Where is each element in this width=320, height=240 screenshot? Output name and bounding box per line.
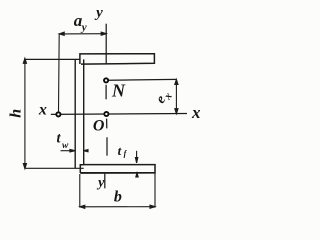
channel web left edge <box>74 59 76 168</box>
channel web right edge <box>83 59 85 164</box>
svg-text:N: N <box>111 80 126 100</box>
svg-text:y: y <box>94 5 103 21</box>
point O circle (centroid) <box>104 112 108 116</box>
bottom flange thick bottom edge <box>80 172 155 174</box>
y axis dash above bottom flange <box>106 137 108 155</box>
web bottom edge + h extension line bottom <box>25 167 84 169</box>
horizontal line from N to e_x dimension <box>109 78 177 81</box>
y axis dash below O <box>106 119 108 129</box>
label e_x (rotated) <box>153 87 175 108</box>
svg-text:t: t <box>118 143 122 158</box>
dimension a_y line <box>59 33 106 35</box>
t_w leader line left of web with arrowhead <box>61 150 76 152</box>
svg-text:O: O <box>93 118 105 135</box>
bottom flange outline <box>80 165 155 174</box>
b left arrowhead <box>80 205 85 208</box>
t dimension tick above flange with arrowhead <box>136 151 138 163</box>
shear centre circle on x axis (left) <box>56 112 60 116</box>
svg-text:x: x <box>38 102 47 119</box>
t dimension tick below flange with arrowhead <box>136 173 138 178</box>
svg-text:b: b <box>114 188 122 205</box>
h bottom arrowhead <box>23 164 26 169</box>
x axis <box>51 113 187 116</box>
b right extension line <box>154 173 156 207</box>
svg-text:y: y <box>96 176 105 191</box>
a_y left arrowhead <box>59 32 64 35</box>
y axis segment below N <box>105 85 107 100</box>
y axis top segment <box>105 24 107 65</box>
svg-text:w: w <box>62 141 69 151</box>
svg-text:x: x <box>191 103 201 122</box>
a_y extension line down to shear centre <box>58 34 61 112</box>
point N circle <box>104 78 108 82</box>
t_w arrowhead right of web <box>84 150 88 152</box>
svg-text:h: h <box>8 109 25 118</box>
b left extension line <box>79 174 81 208</box>
dimension e_x line <box>175 79 177 113</box>
svg-text:y: y <box>80 21 87 33</box>
dimension b line <box>80 206 155 208</box>
e_x top arrowhead <box>175 79 178 84</box>
dimension h line <box>24 58 26 168</box>
a_y right arrowhead <box>101 32 106 35</box>
h top arrowhead <box>23 58 26 63</box>
b right arrowhead <box>150 205 155 208</box>
top flange outline <box>80 54 154 64</box>
y axis bottom segment below flange <box>104 174 106 189</box>
e_x bottom arrowhead <box>175 109 178 114</box>
web top edge + h extension line top <box>25 58 80 60</box>
